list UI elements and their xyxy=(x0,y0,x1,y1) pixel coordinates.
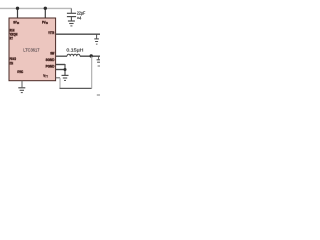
wire VTTR output xyxy=(56,33,100,35)
node junction SVIN xyxy=(16,7,19,10)
wire SVIN drop xyxy=(17,8,19,18)
svg-text:SYNC: SYNC xyxy=(17,69,23,74)
capacitor CIN plates xyxy=(67,13,76,16)
svg-text:0.15µH: 0.15µH xyxy=(66,47,83,52)
ground SYNC xyxy=(18,88,25,93)
svg-text:RT: RT xyxy=(10,36,13,41)
wire SGND/PGND down xyxy=(64,64,66,75)
node junction VTT output xyxy=(90,54,93,57)
svg-text:SGND: SGND xyxy=(46,57,55,62)
wire SGND xyxy=(56,64,65,66)
svg-text:VTTR: VTTR xyxy=(48,30,54,35)
wire VTT sense vertical (light) xyxy=(91,57,93,89)
svg-text:IN: IN xyxy=(46,21,48,25)
wire PVIN drop xyxy=(44,8,46,18)
svg-text:×4: ×4 xyxy=(77,15,82,20)
wire VIN rail corner down to input cap xyxy=(70,8,72,13)
ground SGND/PGND xyxy=(62,75,69,80)
caption fragment bottom right xyxy=(97,94,100,96)
node junction PVIN xyxy=(44,7,47,10)
wire SYNC stub xyxy=(21,81,23,88)
ground VTTR edge xyxy=(94,34,99,44)
IC U1 LTC3617 body xyxy=(9,18,56,81)
svg-text:PGND: PGND xyxy=(46,63,55,68)
svg-text:IN: IN xyxy=(17,21,19,25)
svg-text:TT: TT xyxy=(45,75,48,79)
wire VTT sense bottom xyxy=(60,87,92,89)
wire VTT sense riser (light) xyxy=(59,78,61,89)
svg-text:ITH: ITH xyxy=(10,60,13,65)
wire PGND xyxy=(56,69,65,71)
wire input cap to ground xyxy=(70,17,72,21)
node junction PGND xyxy=(64,68,67,71)
wire inductor to VTT output xyxy=(80,55,100,57)
inductor L1 xyxy=(67,54,80,56)
svg-text:SW: SW xyxy=(50,51,54,56)
wire VIN rail (light) xyxy=(0,7,71,9)
wire VTT pin stub xyxy=(56,77,60,79)
capacitor VTT edge (cut off) xyxy=(97,56,100,66)
ground input cap xyxy=(68,21,75,26)
svg-text:LTC3617: LTC3617 xyxy=(23,48,40,53)
wire SW to inductor xyxy=(56,55,67,57)
